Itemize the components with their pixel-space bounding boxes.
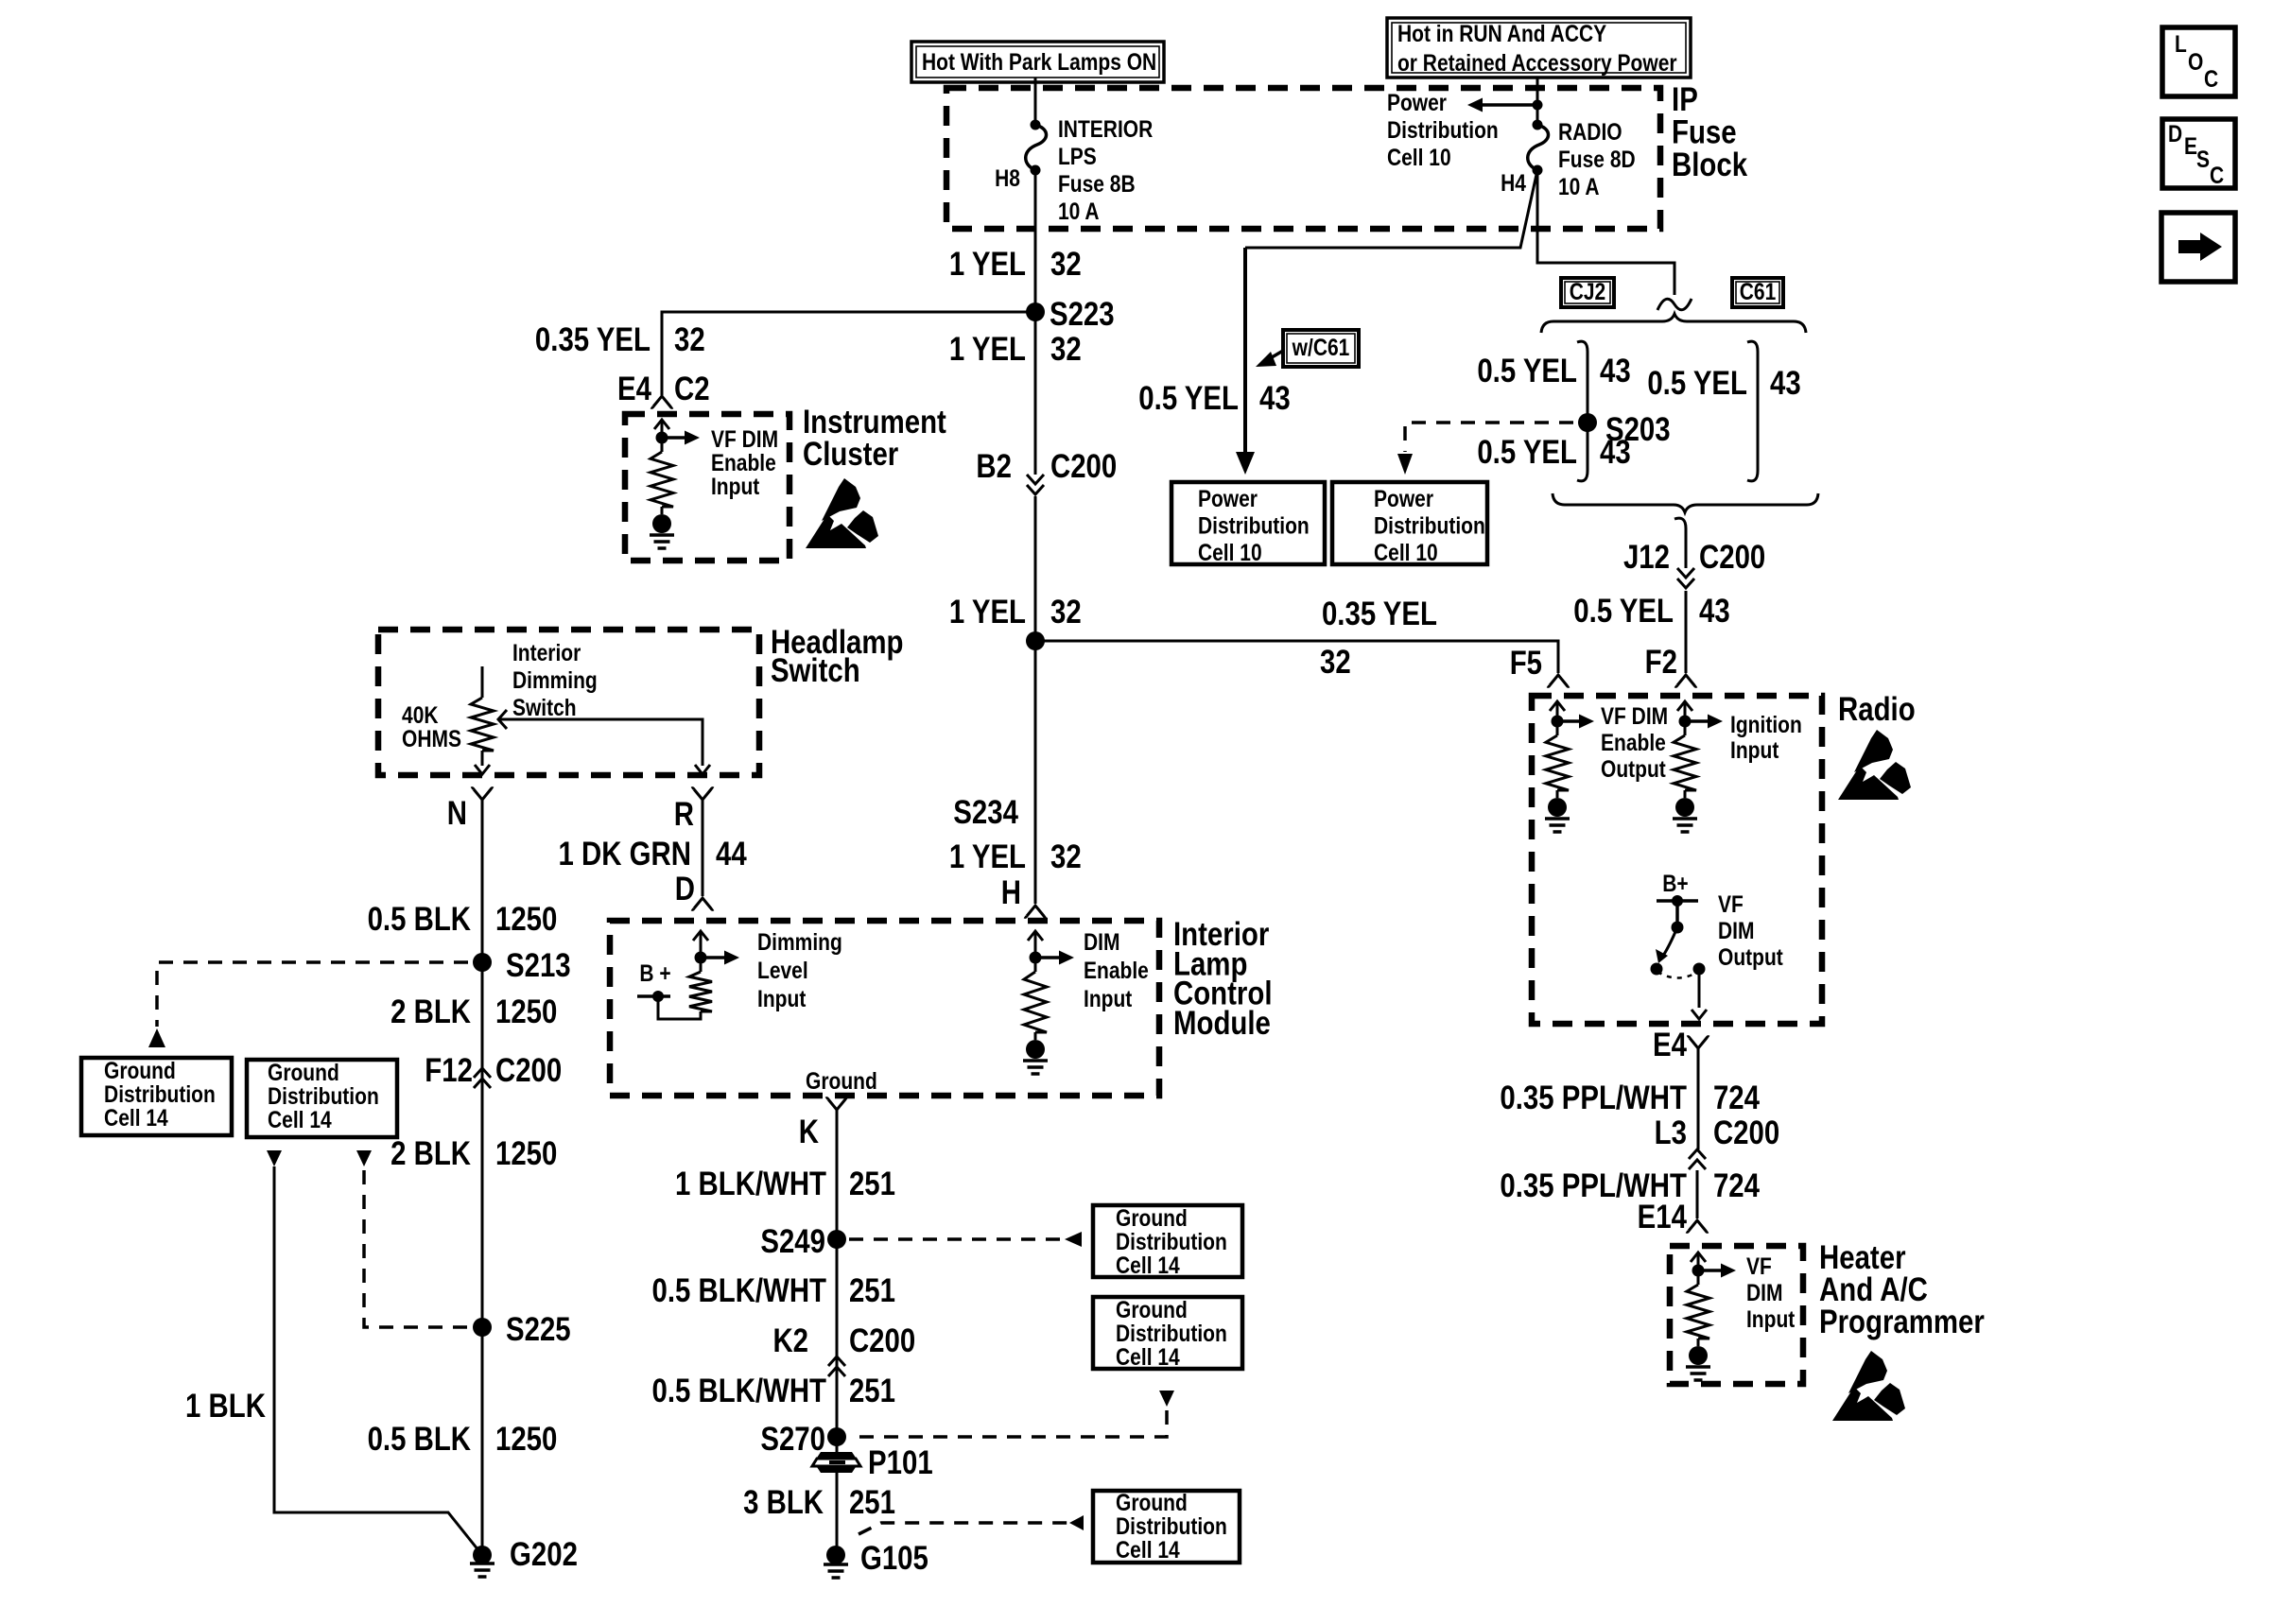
svg-text:J12: J12 [1623,539,1670,576]
svg-text:Enable: Enable [711,449,776,475]
svg-text:N: N [447,795,467,832]
svg-text:Ground: Ground [1116,1296,1188,1322]
svg-text:Cell 10: Cell 10 [1198,539,1262,565]
svg-text:or Retained Accessory Power: or Retained Accessory Power [1397,49,1677,76]
Heater And A/C Programmer dashed outline [1670,1246,1803,1384]
ESD symbol (cluster) [806,478,878,548]
top brace [1541,314,1806,333]
svg-text:251: 251 [849,1166,895,1202]
wire J12 to F2 [1685,591,1688,673]
svg-text:C200: C200 [1713,1114,1779,1151]
svg-text:VF: VF [1718,890,1744,917]
svg-text:Input: Input [1746,1305,1796,1332]
resistor Dimming Level Input [693,931,708,941]
svg-text:0.5 YEL: 0.5 YEL [1477,353,1577,389]
connector pin F5 [1548,675,1570,686]
connector label CJ2 [1561,278,1614,307]
svg-text:C200: C200 [495,1052,562,1089]
svg-text:251: 251 [849,1484,895,1521]
svg-text:10 A: 10 A [1058,198,1100,224]
svg-text:1 YEL: 1 YEL [949,331,1026,368]
wire S223 to instrument cluster [662,312,1035,395]
svg-text:32: 32 [1050,331,1082,368]
svg-text:O: O [2188,48,2203,75]
wire 1 BLK [274,1166,478,1550]
wire C200 to junction [1034,496,1037,641]
wire R to D [702,800,704,896]
reference box Ground Distribution Cell 14 (far left) [81,1058,232,1135]
svg-text:Cell 14: Cell 14 [104,1104,168,1131]
svg-text:B+: B+ [1662,870,1688,896]
svg-text:43: 43 [1699,593,1730,630]
svg-text:Input: Input [1084,985,1133,1011]
svg-text:C: C [2204,65,2218,92]
svg-text:Fuse: Fuse [1672,113,1737,150]
svg-text:VF DIM: VF DIM [1601,702,1668,729]
svg-text:Distribution: Distribution [1116,1512,1227,1539]
connector pin F2 [1675,675,1697,686]
svg-text:Cell 14: Cell 14 [1116,1252,1180,1278]
splice S270 [827,1427,846,1446]
IP Fuse Block dashed outline [946,88,1660,229]
svg-text:F5: F5 [1510,645,1542,682]
svg-text:724: 724 [1713,1167,1760,1204]
svg-text:VF: VF [1746,1253,1772,1279]
svg-text:DIM: DIM [1084,928,1119,955]
svg-text:D: D [2168,120,2182,147]
svg-text:F2: F2 [1645,644,1677,681]
wire junction to F5 [1035,641,1558,673]
svg-text:H: H [1001,874,1021,911]
svg-text:B +: B + [639,959,670,986]
wire N to G202 [481,800,484,1555]
arrow below left box (S225 link) [356,1150,372,1166]
resistor Ignition Input [1677,701,1692,711]
Interior Lamp Control Module dashed outline [610,921,1159,1096]
svg-text:w/C61: w/C61 [1292,334,1350,360]
svg-text:Enable: Enable [1084,957,1149,983]
wire H4 to connector bundle [1537,170,1674,295]
wire H4 diagonal [1245,170,1537,248]
connector J12 C200 [1677,568,1694,588]
svg-text:Fuse 8D: Fuse 8D [1558,146,1636,172]
switch VF DIM Output [1657,899,1698,903]
dashed link S270 [849,1410,1167,1437]
dashed link S203 to Power Distribution [1405,423,1573,452]
svg-text:Power: Power [1387,89,1447,115]
svg-text:43: 43 [1259,380,1291,417]
splice S223 [1026,302,1045,321]
dashed link G105 [859,1523,1083,1534]
svg-text:F12: F12 [425,1052,473,1089]
svg-text:Output: Output [1601,755,1666,782]
svg-text:C200: C200 [1050,448,1117,485]
bottom brace [1553,493,1818,512]
connector pin D [692,898,714,909]
dashed link S249 [849,1237,1082,1241]
svg-text:Programmer: Programmer [1819,1304,1985,1340]
Instrument Cluster dashed outline [625,414,789,561]
wire bundle to J12 [1674,518,1686,568]
svg-text:1250: 1250 [495,1135,557,1172]
ground G105 [826,1546,845,1564]
svg-text:CJ2: CJ2 [1570,278,1606,304]
svg-text:32: 32 [1050,246,1082,283]
connector pin H [1025,906,1047,917]
junction dot on accessory feed [1533,100,1543,111]
arrow from w/C61 [1267,351,1283,360]
legend box arrow [2161,213,2235,282]
svg-text:Switch: Switch [771,652,860,689]
reference box Power Distribution Cell 10 (right) [1332,482,1487,564]
svg-text:H4: H4 [1501,169,1526,196]
fuse F8B INTERIOR LPS (H8) [1031,120,1041,130]
svg-text:32: 32 [1050,594,1082,631]
svg-text:Distribution: Distribution [104,1080,216,1107]
splice S249 [827,1230,846,1249]
svg-text:1250: 1250 [495,1421,557,1458]
connector K2 C200 [828,1356,845,1376]
connector pin E4/C2 [651,396,673,407]
potentiometer 40K OHMS [481,666,484,698]
splice junction dot [1026,631,1045,650]
svg-text:Distribution: Distribution [1374,512,1485,539]
svg-text:32: 32 [1050,838,1082,875]
wire junction to H [1034,641,1037,904]
svg-text:C2: C2 [674,371,710,407]
wire accessory feed [1536,78,1539,130]
svg-text:RADIO: RADIO [1558,118,1622,145]
power source label box: Hot in RUN And ACCY or Retained Accessory Power [1387,18,1691,78]
svg-text:C: C [2210,162,2224,188]
reference box Ground Distribution Cell 14 (B) [1093,1297,1242,1369]
svg-text:Radio: Radio [1838,691,1916,728]
arrow below left box (1 BLK) [267,1150,282,1166]
svg-text:Power: Power [1198,485,1258,511]
svg-text:1 YEL: 1 YEL [949,594,1026,631]
ESD symbol (heater) [1832,1351,1905,1421]
svg-text:1 BLK: 1 BLK [185,1388,267,1425]
svg-text:Cell 14: Cell 14 [1116,1536,1180,1563]
svg-text:0.35 YEL: 0.35 YEL [1322,596,1437,632]
fuse F8D RADIO (H4) [1533,120,1543,130]
svg-text:C200: C200 [1699,539,1765,576]
svg-text:Distribution: Distribution [1198,512,1310,539]
svg-text:L3: L3 [1655,1114,1687,1151]
svg-text:Power: Power [1374,485,1433,511]
svg-text:44: 44 [716,836,747,872]
svg-text:1 BLK/WHT: 1 BLK/WHT [675,1166,826,1202]
connector L3 C200 [1689,1149,1706,1169]
connector F12 C200 [474,1068,491,1088]
wire break symbol [1657,299,1692,310]
svg-text:Ground: Ground [806,1067,877,1094]
legend box DESC [2162,119,2235,188]
svg-text:Distribution: Distribution [1387,116,1499,143]
wire S223 to B2 [1034,312,1037,475]
arrow below box B [1159,1391,1174,1407]
svg-text:H8: H8 [995,164,1020,191]
connector pin E14 [1687,1220,1709,1232]
svg-text:Input: Input [711,473,760,499]
svg-text:VF DIM: VF DIM [711,425,778,452]
svg-text:Cell 10: Cell 10 [1387,144,1451,170]
svg-text:S223: S223 [1050,296,1115,333]
connector pin N [472,788,494,800]
svg-text:DIM: DIM [1718,917,1754,943]
svg-text:B2: B2 [976,448,1012,485]
svg-text:P101: P101 [868,1444,933,1481]
svg-text:0.5 BLK/WHT: 0.5 BLK/WHT [651,1373,826,1409]
svg-text:G105: G105 [860,1540,928,1577]
svg-text:Ground: Ground [268,1059,339,1085]
wire CJ2 branch [1577,341,1588,481]
svg-text:S234: S234 [953,794,1018,831]
svg-text:724: 724 [1713,1080,1760,1116]
svg-text:R: R [674,796,694,833]
ESD symbol (radio) [1838,730,1911,800]
splice S213 [473,953,492,972]
svg-text:1 DK GRN: 1 DK GRN [559,836,691,872]
potentiometer wiper arrow [498,710,507,729]
svg-text:2 BLK: 2 BLK [390,1135,472,1172]
svg-text:S: S [2196,146,2210,172]
svg-text:D: D [675,871,695,907]
wire H8 to S223 [1034,170,1037,312]
svg-text:Output: Output [1718,943,1783,970]
svg-text:1250: 1250 [495,993,557,1030]
svg-text:43: 43 [1600,434,1631,471]
reference box Power Distribution Cell 10 (left) [1171,482,1325,564]
svg-text:1 YEL: 1 YEL [949,246,1026,283]
svg-text:Input: Input [1730,736,1779,763]
svg-text:3 BLK: 3 BLK [743,1484,824,1521]
wire P101 to G105 [836,1473,839,1555]
svg-text:1 YEL: 1 YEL [949,838,1026,875]
svg-text:43: 43 [1600,353,1631,389]
label box w/C61 [1283,330,1359,367]
svg-text:Block: Block [1672,147,1747,183]
svg-text:Ground: Ground [1116,1489,1188,1515]
svg-text:K2: K2 [772,1322,808,1359]
svg-text:Fuse 8B: Fuse 8B [1058,170,1136,197]
svg-text:0.35 PPL/WHT: 0.35 PPL/WHT [1500,1080,1687,1116]
wire K to P101 [836,1110,839,1453]
svg-text:S249: S249 [760,1223,825,1260]
svg-text:Cluster: Cluster [803,436,899,473]
svg-text:32: 32 [1320,644,1351,681]
svg-text:Hot With Park Lamps ON: Hot With Park Lamps ON [922,48,1156,75]
svg-text:C61: C61 [1740,278,1777,304]
svg-text:E4: E4 [1653,1027,1687,1063]
svg-text:0.5 YEL: 0.5 YEL [1573,593,1674,630]
svg-text:1250: 1250 [495,901,557,938]
svg-text:Input: Input [757,985,807,1011]
svg-text:2 BLK: 2 BLK [390,993,472,1030]
svg-text:Enable: Enable [1601,729,1666,755]
svg-text:G202: G202 [510,1536,578,1573]
svg-text:E: E [2184,132,2197,159]
svg-text:251: 251 [849,1373,895,1409]
resistor VF DIM Enable Output [1550,701,1565,711]
svg-text:K: K [799,1114,820,1150]
svg-text:Interior: Interior [512,639,581,665]
connector pin K [826,1098,848,1110]
resistor VF DIM Enable Input (cluster) [654,420,669,429]
wire C61 branch [1747,341,1758,481]
svg-text:LPS: LPS [1058,143,1097,169]
svg-text:32: 32 [674,321,705,358]
svg-text:10 A: 10 A [1558,173,1600,199]
svg-text:Dimming: Dimming [757,928,842,955]
wire L3 to E14 [1696,1170,1699,1218]
power source label box: Hot With Park Lamps ON [911,42,1164,82]
svg-text:OHMS: OHMS [402,725,461,752]
svg-text:Module: Module [1173,1004,1271,1041]
svg-text:S213: S213 [506,947,571,984]
svg-text:40K: 40K [402,701,439,728]
dashed link S225 [364,1170,468,1327]
svg-text:Ground: Ground [104,1057,176,1083]
svg-text:0.5 YEL: 0.5 YEL [1138,380,1239,417]
dashed link S213 [157,962,468,1027]
resistor VF DIM Input (heater) [1691,1253,1706,1262]
svg-text:S270: S270 [760,1421,825,1458]
svg-text:Distribution: Distribution [1116,1228,1227,1254]
svg-text:L: L [2175,30,2187,57]
svg-text:INTERIOR: INTERIOR [1058,115,1154,142]
svg-text:E14: E14 [1638,1199,1687,1235]
connector label C61 [1732,278,1783,307]
splice S203 [1578,413,1597,432]
svg-text:Ignition: Ignition [1730,711,1802,737]
svg-text:0.35 YEL: 0.35 YEL [535,321,651,358]
grommet P101 [817,1452,856,1458]
svg-text:DIM: DIM [1746,1279,1782,1305]
svg-text:Distribution: Distribution [1116,1320,1227,1346]
svg-text:Hot in RUN And ACCY: Hot in RUN And ACCY [1397,20,1607,46]
svg-text:Cell 14: Cell 14 [1116,1343,1180,1370]
svg-text:S225: S225 [506,1311,571,1348]
connector pin R [692,788,714,800]
svg-text:0.5 BLK/WHT: 0.5 BLK/WHT [651,1272,826,1309]
connector pin E4 (radio out) [1688,1037,1709,1048]
connector B2 C200 [1027,475,1044,494]
svg-text:0.5 YEL: 0.5 YEL [1477,434,1577,471]
svg-text:Level: Level [757,957,808,983]
svg-text:251: 251 [849,1272,895,1309]
reference box Ground Distribution Cell 14 (A) [1093,1205,1242,1277]
resistor DIM Enable Input [1028,931,1043,941]
arrow to Power Distribution Cell 10 [1483,103,1537,107]
svg-text:Distribution: Distribution [268,1082,379,1109]
ground G202 [473,1546,492,1564]
legend box LOC [2162,27,2235,96]
svg-text:Switch: Switch [512,694,577,720]
svg-text:43: 43 [1770,365,1801,402]
svg-text:E4: E4 [617,371,651,407]
Headlamp Switch dashed outline [378,630,759,775]
svg-text:0.5 BLK: 0.5 BLK [368,901,472,938]
svg-text:Cell 14: Cell 14 [268,1106,332,1132]
Radio dashed outline [1532,696,1822,1024]
svg-text:Cell 10: Cell 10 [1374,539,1438,565]
wire feed to power distribution (thick arrow) [1243,248,1247,452]
reference box Ground Distribution Cell 14 (C) [1093,1491,1240,1563]
splice S225 [473,1318,492,1337]
svg-text:IP: IP [1672,81,1698,118]
svg-text:C200: C200 [849,1322,915,1359]
svg-text:Ground: Ground [1116,1204,1188,1231]
wire park-lamps feed [1034,78,1037,125]
svg-text:0.5 YEL: 0.5 YEL [1647,365,1747,402]
wire E4 to L3 [1697,1048,1700,1149]
svg-text:0.5 BLK: 0.5 BLK [368,1421,472,1458]
svg-text:Dimming: Dimming [512,666,598,693]
reference box Ground Distribution Cell 14 (left) [247,1060,397,1137]
